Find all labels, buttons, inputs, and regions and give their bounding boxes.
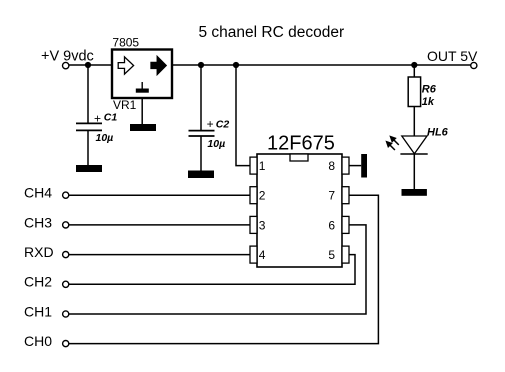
svg-text:7805: 7805 [112,36,139,50]
svg-text:+V 9vdc: +V 9vdc [41,49,94,65]
svg-text:12F675: 12F675 [267,133,335,155]
svg-text:5 chanel RC decoder: 5 chanel RC decoder [199,24,345,41]
svg-text:1k: 1k [422,96,435,108]
svg-text:OUT 5V: OUT 5V [427,48,478,64]
svg-text:+: + [207,117,214,131]
svg-text:1: 1 [259,159,266,173]
svg-text:CH4: CH4 [24,185,52,201]
svg-text:C2: C2 [216,118,230,130]
svg-text:C1: C1 [104,111,118,123]
svg-text:HL6: HL6 [427,127,449,139]
svg-text:CH1: CH1 [24,303,52,319]
svg-text:CH3: CH3 [24,214,52,230]
svg-text:CH0: CH0 [24,333,52,349]
svg-text:2: 2 [259,189,266,203]
svg-text:5: 5 [328,248,335,262]
svg-text:RXD: RXD [24,244,54,260]
svg-text:6: 6 [328,218,335,232]
svg-text:10µ: 10µ [96,132,114,144]
svg-text:4: 4 [259,248,266,262]
svg-text:+: + [94,111,101,125]
svg-text:3: 3 [259,218,266,232]
svg-text:R6: R6 [422,83,437,95]
svg-text:7: 7 [328,189,335,203]
svg-text:8: 8 [328,159,335,173]
svg-text:VR1: VR1 [113,98,137,112]
svg-text:CH2: CH2 [24,274,52,290]
svg-text:10µ: 10µ [207,138,225,150]
